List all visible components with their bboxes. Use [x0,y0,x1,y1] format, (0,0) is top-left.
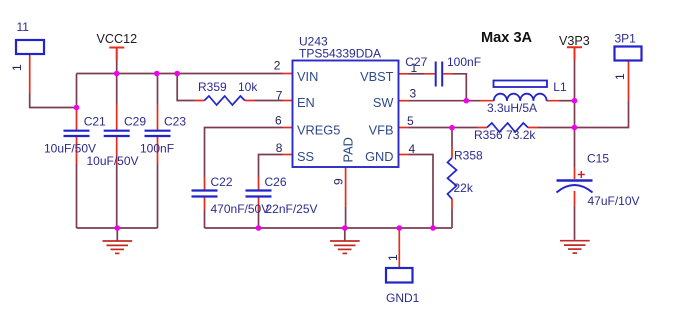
svg-text:3P1: 3P1 [615,31,637,45]
wire SS to C26 [259,155,283,229]
svg-text:1: 1 [386,254,400,261]
pin stub R359 [195,100,255,102]
pin stub PAD pin9 [345,167,347,207]
svg-text:1: 1 [613,73,627,80]
pin stub EN [283,100,293,102]
wire R356 to output rail [538,101,629,128]
pin stub VFB [399,127,409,129]
svg-text:47uF/10V: 47uF/10V [588,194,640,208]
inductor L1 core [494,81,548,88]
capacitor C15 polarized [557,179,593,181]
wire node to C15 [574,128,576,168]
ground left [103,241,133,253]
pin stub C26 [258,177,260,210]
wire GND pin4 drop [409,155,434,229]
pin stub C21 [76,105,78,164]
pin stub GND [399,154,409,156]
svg-text:11: 11 [17,20,30,34]
C15 plus sign [578,171,585,178]
svg-text:22nF/25V: 22nF/25V [266,202,318,216]
svg-text:470nF/50V: 470nF/50V [211,202,270,216]
svg-text:EN: EN [297,95,315,110]
wire V3P3 node vertical [574,61,576,128]
svg-text:PAD: PAD [341,137,356,162]
svg-text:VREG5: VREG5 [297,122,340,137]
svg-text:4: 4 [409,142,416,156]
wire VBST to C27 [409,73,425,75]
VCC12 power symbol [109,48,124,61]
wire VFB line [409,127,478,129]
svg-text:22k: 22k [454,181,474,195]
V3P3 power symbol [567,47,582,60]
svg-text:C22: C22 [211,175,233,189]
svg-text:V3P3: V3P3 [559,34,590,48]
svg-text:SW: SW [373,95,395,110]
wire R359 to EN [255,100,283,102]
wire L1 to output node [560,100,575,102]
svg-text:C21: C21 [84,115,106,129]
resistor R358 [448,158,457,199]
svg-text:6: 6 [275,114,282,128]
svg-text:GND: GND [365,149,393,164]
svg-text:R356 73.2k: R356 73.2k [474,128,536,142]
svg-text:L1: L1 [553,80,567,94]
svg-text:VBST: VBST [360,69,394,84]
pin stub GND1 [398,228,400,268]
node junction dots [114,71,120,77]
pin stub C15 [574,168,576,207]
svg-text:2: 2 [274,59,281,73]
ground right [560,241,590,253]
svg-text:9: 9 [332,178,346,185]
connector 11 [16,40,44,54]
ground middle [330,241,360,253]
pin stub R358 [451,148,453,210]
wire bottom-left rail [77,227,158,229]
resistor R359 [204,96,245,105]
wire VREG5 to C22 [205,128,283,229]
svg-text:TPS54339DDA: TPS54339DDA [299,47,381,61]
wire PAD drop lower [345,207,347,228]
svg-text:C15: C15 [587,152,609,166]
capacitor C22 [192,191,218,197]
capacitor C21 [64,131,90,136]
wire VCC12 stem lower [116,61,118,74]
pin stub VREG5 [283,127,293,129]
pin stub SW [399,100,409,102]
svg-text:100nF: 100nF [447,55,481,69]
svg-text:Max 3A: Max 3A [481,30,533,46]
inductor L1 windings [494,94,547,101]
wire SW to L1 [409,100,481,102]
wire R358 top [451,128,453,148]
svg-text:R359: R359 [198,80,227,94]
wire VIN rail [77,73,283,75]
svg-text:VCC12: VCC12 [97,32,138,46]
pin stub R356 [477,127,538,129]
pin stub SS [283,154,293,156]
svg-text:C29: C29 [124,115,146,129]
svg-text:C27: C27 [405,55,427,69]
pin stub VIN [283,73,293,75]
svg-text:1: 1 [10,64,24,71]
wire connector 11 to C21 column [30,94,77,108]
wire C23 column [157,74,159,229]
svg-text:GND1: GND1 [386,291,420,305]
pin stub C27 [424,73,453,75]
pin stub 3P1 [628,61,630,101]
svg-text:C26: C26 [265,175,287,189]
wire C15 to ground [574,206,576,240]
wire C27 to SW node [453,74,466,101]
svg-text:10uF/50V: 10uF/50V [87,154,139,168]
svg-text:5: 5 [407,114,414,128]
pin stub L1 [481,100,560,102]
wire left column C21 [76,74,78,229]
svg-text:SS: SS [297,149,314,164]
capacitor C26 [246,191,272,197]
svg-text:8: 8 [276,141,283,155]
pin stub VBST [399,73,409,75]
pin stub C23 [157,105,159,164]
svg-text:3.3uH/5A: 3.3uH/5A [487,101,537,115]
wire bottom main rail [205,227,453,229]
capacitor C29 [104,131,130,136]
svg-text:3: 3 [410,87,417,101]
ground middle stem [344,228,346,241]
pin stub C22 [204,177,206,210]
svg-text:7: 7 [276,88,283,102]
capacitor C27 [436,62,443,87]
wire R359 branch [177,74,194,101]
ground left stem [116,228,118,241]
svg-text:VFB: VFB [369,122,394,137]
connector GND1 [386,268,413,283]
wire R358 bottom [451,209,453,228]
pin stub C29 [116,105,118,164]
resistor R356 [487,123,528,132]
op-amp U243 IC box [293,61,399,168]
svg-text:100nF: 100nF [140,142,174,156]
svg-text:R358: R358 [454,149,483,163]
wire C29 column [116,74,118,229]
svg-text:VIN: VIN [297,69,318,84]
svg-text:C23: C23 [164,115,186,129]
connector 11 pin stub [29,54,31,94]
connector 3P1 [615,47,642,61]
capacitor C23 [145,131,171,136]
svg-text:10k: 10k [238,80,258,94]
